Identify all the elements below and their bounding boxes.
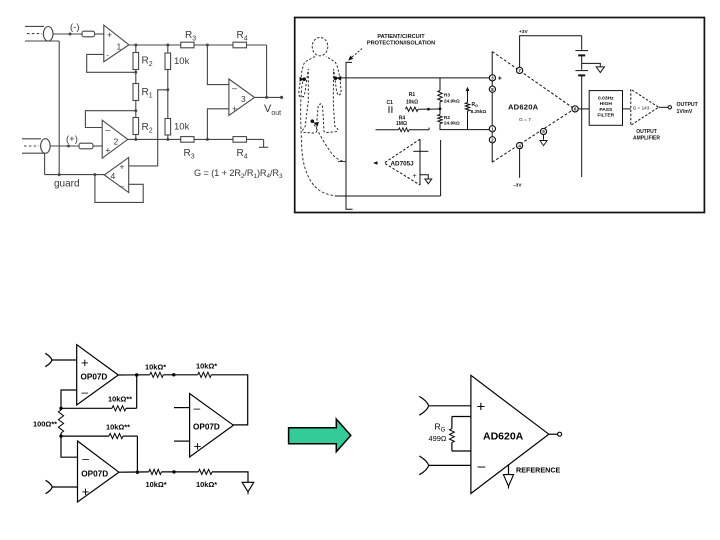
- wire: guard sense from 10k midpoint to op-amp 4: [129, 90, 168, 166]
- wire: lower op-amp inverting input: [61, 436, 78, 457]
- wire: op-amp 3 output Vout: [255, 96, 284, 99]
- svg-text:1: 1: [117, 42, 122, 52]
- patient human figure: [299, 37, 341, 133]
- svg-text:+: +: [413, 173, 417, 180]
- svg-text:10kΩ*: 10kΩ*: [196, 361, 217, 370]
- op-amp 1: [104, 25, 129, 62]
- svg-text:4: 4: [111, 171, 116, 181]
- svg-text:AD620A: AD620A: [483, 431, 524, 443]
- wire: op-amp 1 output rail: [129, 45, 267, 97]
- wire: left-leg electrode dashed lead to boundary: [314, 125, 346, 162]
- resistor 10k (lower): [165, 119, 171, 140]
- op-amp AD705J: [373, 139, 420, 185]
- resistor R3 (bottom): [181, 137, 194, 143]
- svg-text:OUTPUT: OUTPUT: [636, 129, 657, 135]
- svg-text:1: 1: [491, 127, 494, 132]
- svg-text:+: +: [498, 76, 502, 83]
- svg-text:499Ω: 499Ω: [429, 434, 447, 443]
- svg-text:HIGH: HIGH: [600, 101, 613, 107]
- svg-text:6: 6: [574, 107, 577, 112]
- node: feedback node B: [59, 434, 62, 437]
- op-amp 4 (guard driver, points left): [104, 158, 128, 193]
- output amplifier G=143 (dashed triangle): [631, 89, 659, 125]
- op-amp OP07D (lower): [78, 441, 119, 502]
- node: shield junction on guard: [58, 173, 61, 176]
- capacitor C1: [389, 106, 392, 113]
- svg-text:OP07D: OP07D: [81, 470, 108, 479]
- svg-text:+: +: [81, 355, 89, 370]
- resistor R4 (top): [233, 42, 247, 48]
- series protection resistor at (-) input: [82, 31, 95, 37]
- svg-text:+: +: [107, 30, 112, 40]
- wire: upper op-amp inverting input: [61, 390, 77, 408]
- wire: drive loop vertical: [440, 140, 442, 196]
- labels R4 1Mohm: [396, 115, 407, 127]
- svg-text:OP07D: OP07D: [81, 373, 108, 382]
- svg-text:0.03Hz: 0.03Hz: [598, 96, 614, 102]
- pin 2: [489, 137, 495, 143]
- svg-text:10kΩ**: 10kΩ**: [108, 395, 132, 404]
- svg-text:FILTER: FILTER: [597, 112, 614, 118]
- electrode dot right arm: [334, 76, 342, 81]
- wire: op-amp 2 output rail: [128, 138, 264, 140]
- svg-text:10kΩ*: 10kΩ*: [196, 480, 217, 489]
- svg-text:10kΩ*: 10kΩ*: [145, 362, 166, 371]
- wire/resistor 10k* upper left: [118, 372, 197, 377]
- node guard tap on 10k divider: [166, 88, 169, 91]
- svg-text:G = 143: G = 143: [633, 105, 650, 110]
- wire: right-leg drive line: [335, 195, 441, 197]
- teal block arrow: [289, 419, 351, 452]
- wire: left-arm electrode dashed lead to driven lead wire: [301, 82, 336, 196]
- svg-text:OP07D: OP07D: [193, 423, 220, 432]
- node: summing junction upper: [172, 373, 175, 376]
- svg-text:3: 3: [241, 94, 246, 104]
- coax shielded input (-): [25, 26, 82, 41]
- node: op-amp 4 feedback junction: [93, 173, 96, 176]
- node: upper op-amp output: [135, 373, 138, 376]
- resistor 10k (upper): [165, 45, 171, 70]
- svg-text:PASS: PASS: [599, 107, 613, 113]
- pin 5 ground: [540, 135, 547, 146]
- input terminal AD620 lower: [419, 456, 471, 475]
- svg-text:–: –: [82, 452, 89, 466]
- node: (-) input junction: [69, 33, 72, 36]
- svg-text:10kΩ*: 10kΩ*: [146, 480, 167, 489]
- svg-text:R2: R2: [444, 115, 450, 121]
- wire: pin 4 to -3V: [519, 149, 521, 178]
- svg-text:24.9kΩ: 24.9kΩ: [444, 121, 460, 127]
- svg-text:AD705J: AD705J: [391, 161, 415, 168]
- ground symbol: [242, 482, 254, 494]
- wire: op-amp 4 feedback loop: [95, 175, 143, 203]
- svg-text:1V/mV: 1V/mV: [677, 109, 693, 115]
- wire: guard rail: [45, 174, 105, 176]
- isolation boundary line: [346, 62, 353, 209]
- wire: R3 top node to op-amp 3 inverting input: [207, 45, 229, 85]
- pin 5: [540, 128, 546, 134]
- wire: R3 bottom node to op-amp 3 non-inverting input: [207, 109, 229, 140]
- svg-text:OUTPUT: OUTPUT: [677, 102, 699, 108]
- svg-text:–: –: [105, 125, 110, 135]
- node dots on bottom rail: [134, 138, 209, 141]
- pin 7: [517, 67, 523, 73]
- wire: output op-amp non-inverting stub: [174, 440, 190, 442]
- input terminal AD620 upper: [419, 396, 471, 415]
- wire: filter to output amplifier: [623, 108, 631, 110]
- op-amp 2: [102, 120, 128, 158]
- electrode dot left arm: [300, 77, 306, 82]
- svg-text:(-): (-): [70, 22, 80, 33]
- svg-text:+: +: [477, 399, 486, 416]
- electrode dot left leg: [311, 119, 319, 126]
- svg-text:PATIENT/CIRCUIT: PATIENT/CIRCUIT: [377, 34, 425, 40]
- resistor R2 24.9k (vertical zigzag): [438, 115, 442, 130]
- pin 3: [489, 75, 495, 81]
- node: (+) input junction: [67, 145, 70, 148]
- wire: op-amp 2 feedback to R1/R2 junction: [85, 111, 135, 128]
- in-amp AD620A symbol: [471, 375, 549, 493]
- svg-text:–: –: [194, 401, 201, 415]
- pin 6: [572, 106, 578, 112]
- node dots on top rail: [134, 44, 209, 47]
- svg-text:AD620A: AD620A: [508, 103, 539, 112]
- resistor 10k* upper right (feedback): [198, 372, 248, 425]
- svg-text:10k: 10k: [174, 122, 190, 133]
- wire: shield of (+) cable down to guard: [44, 153, 46, 174]
- wire/resistor 10k* lower left: [119, 469, 198, 474]
- svg-text:-: -: [106, 51, 109, 60]
- label OUTPUT 1V/mV: [677, 102, 699, 115]
- wire: +3V supply to pin 7: [520, 36, 582, 68]
- svg-text:guard: guard: [54, 179, 80, 190]
- wire: R1 to divider column: [418, 107, 441, 110]
- svg-text:+: +: [120, 162, 125, 172]
- svg-text:R3: R3: [444, 93, 450, 99]
- resistor R1 10k 5% (horizontal zigzag): [406, 107, 419, 111]
- wire to op-amp 2: [93, 145, 102, 147]
- resistor R3 24.9k (vertical zigzag): [438, 78, 442, 115]
- ground at R4 bottom: [259, 139, 268, 147]
- node: summing junction lower: [172, 470, 175, 473]
- svg-text:REFERENCE: REFERENCE: [516, 465, 561, 474]
- pin 1: [489, 126, 495, 132]
- resistor R3 (top): [181, 42, 194, 48]
- svg-text:3: 3: [491, 76, 494, 81]
- svg-text:+: +: [232, 104, 237, 114]
- wire: output terminal: [659, 106, 672, 109]
- label OUTPUT AMPLIFIER: [633, 129, 660, 141]
- svg-text:2: 2: [114, 137, 119, 147]
- wire: pin 6 to high pass filter: [578, 108, 589, 110]
- svg-text:10k: 10k: [174, 56, 190, 67]
- wire: AD705J inverting input: [413, 150, 428, 152]
- labels R1 10kohm: [406, 92, 418, 105]
- svg-text:–: –: [82, 385, 89, 399]
- wire to op-amp 1: [95, 33, 104, 35]
- svg-text:–: –: [478, 458, 486, 474]
- node R2/R1 junction: [134, 70, 137, 84]
- wire: shield of (-) cable down to guard: [58, 41, 60, 175]
- series protection resistor at (+) input: [79, 143, 93, 149]
- resistor RG 8.25k: [465, 87, 469, 130]
- svg-text:C1: C1: [387, 100, 394, 106]
- svg-text:–3V: –3V: [513, 183, 522, 189]
- op-amp 3: [229, 79, 255, 116]
- wire: RG node to AD620 pin 1: [440, 129, 490, 131]
- coax shielded input (+): [22, 139, 79, 154]
- label PATIENT/CIRCUIT PROTECTION/ISOLATION: [367, 34, 435, 47]
- resistor R1: [133, 84, 139, 101]
- pin 4: [517, 143, 523, 149]
- input terminal upper: [45, 353, 76, 366]
- svg-text:–: –: [120, 181, 125, 191]
- svg-text:8: 8: [491, 87, 494, 92]
- resistor 10k** (upper feedback): [61, 375, 137, 411]
- labels R2 24.9kohm: [444, 115, 460, 127]
- resistor 10k* lower right: [198, 469, 248, 482]
- resistor R4 1M on patient wire: [376, 128, 430, 132]
- block 0.03Hz high pass filter: [589, 91, 622, 126]
- resistor R2 (upper): [133, 45, 139, 70]
- op-amp OP07D (output): [190, 394, 234, 458]
- wire: right-arm electrode to AD620 +IN: [337, 77, 490, 79]
- svg-text:8.25kΩ: 8.25kΩ: [471, 109, 487, 115]
- svg-text:5: 5: [542, 129, 545, 134]
- svg-text:AMPLIFIER: AMPLIFIER: [633, 135, 660, 141]
- outer border of ECG application diagram: [295, 18, 705, 213]
- svg-text:+: +: [105, 146, 110, 156]
- svg-text:1MΩ: 1MΩ: [396, 121, 407, 127]
- output terminal: [549, 432, 562, 436]
- svg-text:4: 4: [518, 143, 521, 148]
- svg-text:10kΩ**: 10kΩ**: [106, 423, 130, 432]
- svg-text:7: 7: [518, 68, 521, 73]
- svg-text:+: +: [82, 484, 90, 499]
- pin 8: [489, 86, 495, 92]
- resistor RG 499ohm: [450, 417, 471, 452]
- wire: output op-amp inverting stub: [174, 407, 190, 409]
- resistor R4 (bottom): [233, 137, 247, 143]
- op-amp OP07D (upper): [77, 345, 119, 405]
- svg-text:+: +: [194, 439, 202, 454]
- dashed pointer arrow to isolation boundary: [348, 49, 362, 61]
- svg-text:(+): (+): [66, 134, 78, 145]
- labels RG 8.25kohm: [471, 102, 487, 115]
- battery stack: [575, 36, 588, 177]
- svg-text:PROTECTION/ISOLATION: PROTECTION/ISOLATION: [367, 41, 435, 47]
- battery midpoint ground: [582, 63, 605, 72]
- input terminal lower: [46, 480, 78, 493]
- svg-text:10kΩ: 10kΩ: [406, 99, 418, 105]
- resistor R2 (lower): [133, 118, 139, 140]
- svg-text:24.9kΩ: 24.9kΩ: [444, 98, 460, 104]
- node: feedback node A: [59, 407, 62, 410]
- svg-text:R1: R1: [409, 92, 416, 98]
- in-amp AD620A (dashed triangle): [492, 52, 574, 163]
- label RG 499ohm: [429, 422, 447, 443]
- svg-text:+3V: +3V: [519, 29, 528, 35]
- wire: op-amp 1 feedback to R2/R1 junction: [87, 54, 136, 72]
- node: lower op-amp output: [136, 471, 139, 474]
- wire between 10k resistors: [167, 70, 169, 119]
- labels R3 24.9kohm: [444, 93, 460, 105]
- svg-text:–: –: [232, 83, 237, 93]
- resistor 100** gain set: [58, 410, 63, 436]
- svg-text:100Ω**: 100Ω**: [33, 420, 57, 429]
- wire: AD705J non-inverting input to ground: [413, 173, 432, 184]
- resistor 10k** (lower feedback): [61, 434, 137, 473]
- node R1/R2 junction: [134, 101, 137, 118]
- svg-text:2: 2: [491, 138, 494, 143]
- reference pin ground: [503, 464, 513, 488]
- svg-text:G = 7: G = 7: [519, 117, 531, 123]
